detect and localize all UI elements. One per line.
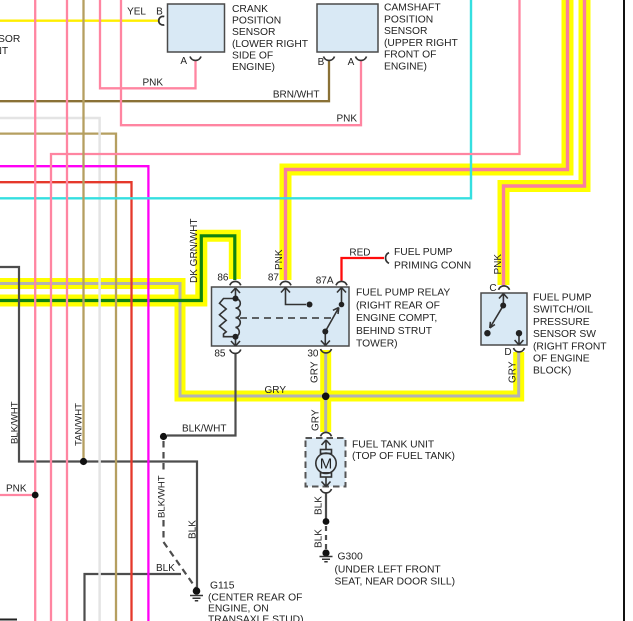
svg-text:PRESSURE: PRESSURE bbox=[533, 317, 590, 328]
wire PNK from camshaft pin A bbox=[121, 0, 361, 125]
svg-text:PNK: PNK bbox=[493, 254, 504, 275]
wire PNK core B to switch C bbox=[504, 0, 585, 285]
node relay coil bottom bbox=[233, 334, 239, 340]
svg-text:BLOCK): BLOCK) bbox=[533, 366, 571, 377]
wire BLK below fuel tank unit bbox=[325, 494, 327, 520]
pin cup relay 86 bbox=[230, 281, 241, 285]
pin 30 link bbox=[321, 332, 330, 346]
svg-text:OF ENGINE: OF ENGINE bbox=[533, 354, 590, 365]
svg-text:ENGINE): ENGINE) bbox=[232, 62, 275, 73]
svg-text:A: A bbox=[348, 57, 355, 68]
svg-text:(CENTER REAR OF: (CENTER REAR OF bbox=[208, 593, 302, 604]
motor arrow out bbox=[322, 477, 331, 487]
svg-text:POSITION: POSITION bbox=[384, 14, 433, 25]
svg-text:BLK: BLK bbox=[314, 496, 325, 515]
svg-text:G300: G300 bbox=[338, 552, 363, 563]
svg-text:PNK: PNK bbox=[336, 114, 357, 125]
svg-text:SWITCH/OIL: SWITCH/OIL bbox=[533, 305, 593, 316]
node relay arm pivot bbox=[322, 329, 328, 335]
svg-text:(LOWER RIGHT: (LOWER RIGHT bbox=[232, 39, 309, 50]
svg-text:ENGINE, ON: ENGINE, ON bbox=[208, 604, 269, 615]
svg-text:FRONT OF: FRONT OF bbox=[384, 50, 436, 61]
dashed mechanical link bbox=[240, 317, 332, 319]
svg-text:BLK/WHT: BLK/WHT bbox=[10, 401, 21, 444]
wire BLK dashed to G300 bbox=[325, 526, 327, 550]
pin 86 arrow bbox=[231, 288, 240, 300]
pin cup fuel tank top bbox=[321, 432, 332, 436]
coil resistor zigzag bbox=[220, 299, 236, 337]
wire PNK stub left bbox=[0, 494, 35, 496]
svg-text:CRANK: CRANK bbox=[232, 4, 268, 15]
svg-text:(TOP OF FUEL TANK): (TOP OF FUEL TANK) bbox=[352, 451, 455, 462]
pin cup relay 87A bbox=[336, 281, 347, 285]
wire YEL to crank sensor pin B bbox=[0, 20, 160, 22]
svg-text:B: B bbox=[156, 7, 163, 18]
wire BRN/WHT from camshaft pin B bbox=[0, 61, 329, 101]
svg-text:FUEL PUMP: FUEL PUMP bbox=[394, 247, 453, 258]
pin 87 arrow and contact bbox=[281, 288, 306, 305]
svg-text:PNK: PNK bbox=[142, 78, 163, 89]
node TAN/WHT junction on BLK/WHT bbox=[80, 458, 87, 465]
svg-text:G115: G115 bbox=[210, 581, 235, 592]
node BLK splice bbox=[323, 518, 330, 525]
pin cup fuel tank bottom bbox=[321, 489, 332, 493]
ground G300 bbox=[320, 549, 333, 561]
svg-text:SIDE OF: SIDE OF bbox=[232, 50, 273, 61]
wire CYAN bbox=[0, 0, 471, 198]
svg-text:GRY: GRY bbox=[265, 385, 287, 396]
svg-text:(UPPER RIGHT: (UPPER RIGHT bbox=[384, 38, 459, 49]
svg-text:TRANSAXLE STUD): TRANSAXLE STUD) bbox=[208, 615, 304, 621]
svg-text:FUEL TANK UNIT: FUEL TANK UNIT bbox=[352, 440, 435, 451]
coil arcs bbox=[236, 299, 241, 337]
node GRY junction bbox=[322, 393, 330, 401]
camshaft position sensor box bbox=[317, 4, 378, 52]
node switch arm end bbox=[484, 330, 490, 336]
svg-text:30: 30 bbox=[307, 348, 319, 359]
svg-text:B: B bbox=[318, 57, 325, 68]
fuel tank unit dashed box bbox=[306, 438, 346, 487]
svg-text:85: 85 bbox=[214, 348, 226, 359]
switch arm bbox=[490, 306, 503, 328]
wire PNK from crank pin A bbox=[100, 0, 196, 88]
pin C arrow bbox=[499, 294, 508, 305]
wire PNK highlight band A (to relay pin 87) bbox=[286, 0, 568, 280]
wire black corner bottom-left bbox=[0, 619, 17, 621]
wire PNK core A to relay 87 bbox=[286, 0, 568, 280]
pin cup crank B bbox=[159, 16, 165, 25]
svg-text:87A: 87A bbox=[316, 276, 334, 287]
svg-text:PNK: PNK bbox=[6, 484, 27, 495]
pin cup crank A bbox=[190, 57, 201, 61]
svg-text:CAMSHAFT: CAMSHAFT bbox=[384, 3, 441, 14]
wire RED long bbox=[0, 182, 132, 621]
svg-text:RED: RED bbox=[349, 248, 370, 259]
motor arrow in bbox=[322, 440, 331, 450]
wire GRY highlight band relay30 to tank bbox=[320, 350, 331, 432]
wire GRY core relay30/tank bbox=[324, 354, 327, 433]
svg-text:M: M bbox=[320, 456, 333, 473]
fuel pump switch box bbox=[481, 293, 527, 345]
wire TAN (second) bbox=[0, 134, 116, 621]
svg-text:PRIMING CONN: PRIMING CONN bbox=[394, 261, 471, 272]
svg-text:ENGINE): ENGINE) bbox=[384, 62, 427, 73]
svg-text:SENSOR: SENSOR bbox=[384, 26, 428, 37]
svg-text:D: D bbox=[504, 347, 511, 358]
svg-text:DK GRN/WHT: DK GRN/WHT bbox=[189, 219, 200, 283]
svg-text:GRY: GRY bbox=[310, 361, 321, 383]
svg-text:(RIGHT FRONT: (RIGHT FRONT bbox=[533, 341, 607, 352]
pin cup switch D bbox=[514, 348, 525, 352]
svg-text:TAN/WHT: TAN/WHT bbox=[74, 403, 85, 446]
node relay 87 contact bbox=[307, 302, 313, 308]
ground G115 bbox=[190, 587, 203, 601]
svg-text:87: 87 bbox=[268, 273, 280, 284]
svg-text:GRY: GRY bbox=[311, 409, 322, 431]
wire DK GRN/WHT core bbox=[0, 236, 235, 301]
svg-text:(RIGHT REAR OF: (RIGHT REAR OF bbox=[356, 300, 440, 311]
svg-text:BLK: BLK bbox=[188, 520, 199, 539]
wire PNK long (right top to bottom left) bbox=[51, 0, 520, 621]
wire BLK/WHT from relay pin 85 bbox=[167, 354, 236, 436]
svg-text:BLK: BLK bbox=[156, 563, 175, 574]
motor brush bottom bbox=[321, 473, 332, 477]
pin 87A arrow bbox=[337, 288, 346, 305]
relay switch arm bbox=[325, 308, 339, 332]
svg-text:BLK: BLK bbox=[314, 529, 325, 548]
wire BLK bottom left bbox=[85, 574, 182, 621]
svg-text:SENSOR: SENSOR bbox=[232, 27, 276, 38]
connector FUEL PUMP PRIMING CONN bbox=[386, 253, 389, 264]
pin D link bbox=[515, 333, 524, 345]
wire BLK/WHT main to G115 bbox=[0, 267, 197, 589]
svg-text:(UNDER LEFT FRONT: (UNDER LEFT FRONT bbox=[335, 565, 442, 576]
wire MAGENTA bbox=[0, 166, 148, 621]
wire DK GRN/WHT highlight band bbox=[0, 236, 235, 301]
node BLK/WHT junction dot bbox=[160, 433, 167, 440]
svg-text:POSITION: POSITION bbox=[232, 16, 281, 27]
motor M1 circle bbox=[316, 453, 336, 473]
svg-text:GRY: GRY bbox=[508, 361, 519, 383]
svg-text:PNK: PNK bbox=[274, 249, 285, 270]
svg-text:BLK/WHT: BLK/WHT bbox=[182, 424, 226, 435]
svg-text:C: C bbox=[489, 283, 496, 294]
crank position sensor box bbox=[168, 4, 225, 52]
svg-text:TOWER): TOWER) bbox=[356, 339, 398, 350]
wire PNK vertical 1 bbox=[34, 0, 36, 621]
motor brush top bbox=[321, 450, 332, 454]
wire GRY core main bbox=[0, 284, 519, 397]
pin cup relay 85 bbox=[230, 350, 241, 354]
wire RED stub to priming connector bbox=[342, 258, 385, 281]
svg-text:BLK/WHT: BLK/WHT bbox=[157, 475, 168, 518]
node switch C contact bbox=[500, 303, 506, 309]
wire BLK/WHT dashed to ground bbox=[162, 441, 164, 473]
pin cup relay 87 bbox=[280, 281, 291, 285]
svg-text:FUEL PUMP: FUEL PUMP bbox=[533, 293, 592, 304]
pin cup camshaft B bbox=[324, 57, 335, 61]
svg-text:BEHIND STRUT: BEHIND STRUT bbox=[356, 326, 433, 337]
svg-text:BRN/WHT: BRN/WHT bbox=[273, 89, 320, 100]
svg-text:A: A bbox=[180, 56, 187, 67]
pin cup relay 30 bbox=[321, 349, 332, 353]
svg-text:ENGINE COMPT,: ENGINE COMPT, bbox=[356, 313, 437, 324]
pin cup camshaft A bbox=[356, 57, 367, 61]
node relay coil top bbox=[233, 296, 239, 302]
wire PNK vertical 2 bbox=[66, 0, 68, 621]
svg-text:SOR: SOR bbox=[0, 34, 20, 45]
svg-text:NT: NT bbox=[0, 46, 9, 57]
svg-text:SEAT, NEAR DOOR SILL): SEAT, NEAR DOOR SILL) bbox=[335, 577, 456, 588]
wire WHT bbox=[0, 118, 100, 621]
svg-text:FUEL PUMP RELAY: FUEL PUMP RELAY bbox=[356, 288, 450, 299]
svg-text:SENSOR SW: SENSOR SW bbox=[533, 329, 596, 340]
wire PNK highlight band B (to switch pin C) bbox=[504, 0, 585, 285]
node switch D contact bbox=[516, 330, 522, 336]
svg-text:YEL: YEL bbox=[127, 7, 146, 18]
fuel pump relay U1 box bbox=[212, 287, 350, 346]
border line bbox=[623, 0, 625, 621]
node PNK stub junction bbox=[32, 492, 39, 499]
svg-text:86: 86 bbox=[217, 273, 229, 284]
coil to pin 85 bbox=[231, 337, 240, 346]
wire TAN/WHT vertical bbox=[82, 0, 84, 462]
pin cup switch C bbox=[499, 286, 510, 290]
wire GRY highlight band main bbox=[0, 284, 519, 397]
